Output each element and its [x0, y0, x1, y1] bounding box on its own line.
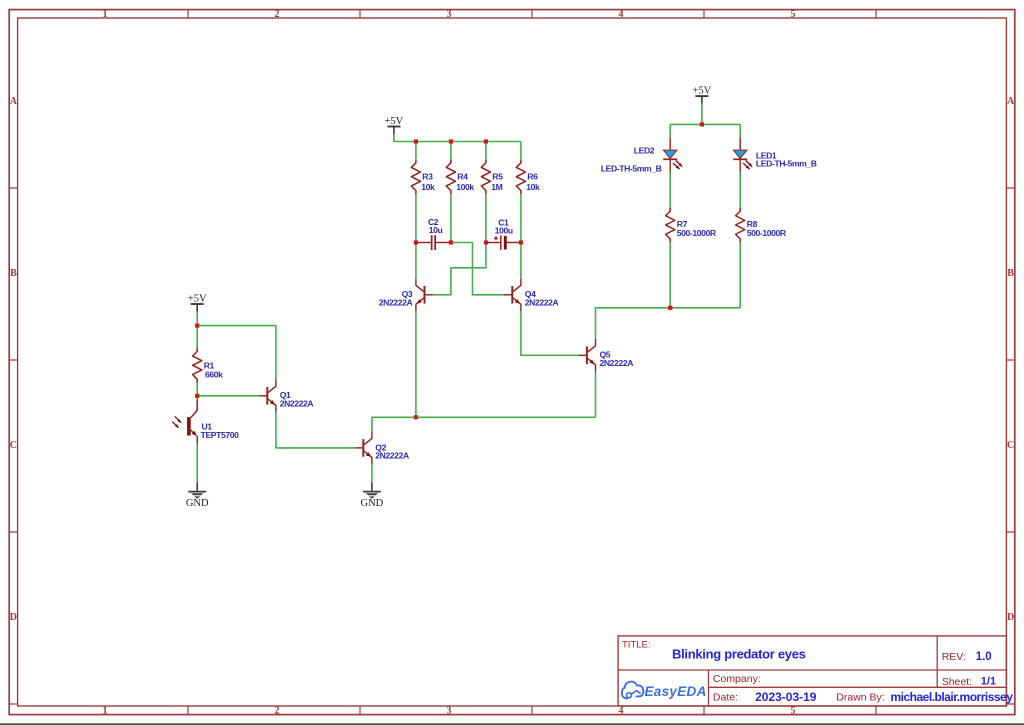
junction C1 left	[484, 240, 488, 244]
junction R7 bottom bus	[668, 306, 672, 310]
value 2N2222A Q4	[525, 298, 559, 308]
+5V supply symbol right	[693, 86, 712, 104]
svg-text:A: A	[1007, 96, 1015, 107]
svg-text:5: 5	[791, 9, 796, 20]
junction C2 left	[414, 240, 418, 244]
wire LED1 anode drop	[739, 124, 741, 137]
svg-text:2: 2	[275, 9, 280, 20]
svg-text:R6: R6	[527, 172, 538, 182]
resistor R3	[411, 159, 420, 194]
svg-text:100k: 100k	[456, 182, 474, 192]
wire R7 bottom to bus	[669, 242, 671, 307]
svg-text:LED-TH-5mm_B: LED-TH-5mm_B	[756, 158, 817, 168]
wire C2 left to Q3 collector	[415, 243, 417, 279]
svg-text:2N2222A: 2N2222A	[600, 358, 634, 368]
svg-text:+5V: +5V	[693, 86, 712, 97]
svg-text:2: 2	[275, 705, 280, 716]
wire R8 bottom to bus	[739, 242, 741, 307]
wire R3 bottom to C2 left	[415, 194, 417, 243]
label Q1	[280, 390, 291, 400]
junction +5V LED bus	[700, 122, 704, 126]
svg-text:3: 3	[447, 705, 452, 716]
sheet value 1/1	[981, 676, 996, 688]
EasyEDA logo	[622, 682, 707, 699]
label U1	[202, 421, 213, 431]
value 660k	[205, 369, 223, 379]
junction R1/U1/Q1 base	[195, 394, 199, 398]
wire Q4 emitter to Q5 base	[521, 311, 579, 355]
svg-text:1M: 1M	[491, 182, 502, 192]
svg-text:R3: R3	[422, 172, 433, 182]
svg-text:A: A	[10, 96, 18, 107]
svg-text:2023-03-19: 2023-03-19	[755, 690, 817, 704]
wire Q2 collector to Q5 emitter rail	[372, 417, 596, 431]
value 500-1000R	[677, 228, 717, 238]
junction Q3 emitter rail	[414, 415, 418, 419]
wire C1 right to Q4 collector	[520, 243, 522, 279]
value 500-1000R	[747, 228, 787, 238]
svg-text:Drawn By:: Drawn By:	[836, 692, 884, 704]
svg-text:B: B	[1007, 268, 1014, 279]
value 10k	[421, 182, 435, 192]
junction R5 top	[484, 139, 488, 143]
transistor Q5	[579, 339, 596, 372]
svg-text:1: 1	[103, 9, 108, 20]
wire R5 bottom to C1 left	[485, 194, 487, 243]
author value	[891, 690, 1014, 704]
title block TITLE label	[622, 639, 651, 650]
Company label	[713, 673, 761, 685]
svg-text:660k: 660k	[205, 369, 223, 379]
svg-text:B: B	[10, 268, 17, 279]
svg-text:10u: 10u	[429, 225, 443, 235]
Date label	[713, 692, 738, 704]
svg-text:+5V: +5V	[385, 116, 404, 127]
wire +5V to R1 top	[196, 311, 198, 348]
wire LED top bus	[670, 123, 740, 125]
svg-text:D: D	[10, 612, 17, 623]
wire R3 top	[415, 142, 417, 160]
transistor Q3 mirrored	[416, 278, 433, 311]
REV label	[942, 651, 966, 663]
wire +5V junction to Q1 collector	[197, 326, 276, 380]
svg-text:Company:: Company:	[713, 673, 761, 685]
value LED-TH-5mm_B left	[601, 163, 662, 173]
wire C2 right to Q4 base	[451, 243, 504, 295]
wire LED2 to R7	[669, 172, 671, 208]
svg-text:100u: 100u	[495, 226, 513, 236]
svg-text:4: 4	[619, 9, 624, 20]
svg-text:4: 4	[619, 705, 624, 716]
value 100u	[495, 226, 513, 236]
svg-text:Date:: Date:	[713, 692, 738, 704]
svg-text:2N2222A: 2N2222A	[379, 298, 413, 308]
resistor R6	[516, 159, 525, 194]
svg-text:500-1000R: 500-1000R	[747, 228, 787, 238]
+5V supply symbol middle	[385, 116, 404, 134]
Drawn By label	[836, 692, 884, 704]
svg-text:Sheet:: Sheet:	[942, 676, 972, 688]
value 10k	[526, 182, 540, 192]
Sheet label	[942, 676, 972, 688]
svg-text:5: 5	[791, 705, 796, 716]
svg-text:2N2222A: 2N2222A	[375, 451, 409, 461]
wire R6 bottom to C1 right	[520, 194, 522, 243]
label C2	[428, 217, 439, 227]
svg-text:REV:: REV:	[942, 651, 966, 663]
resistor R4	[446, 159, 455, 194]
svg-text:1: 1	[103, 705, 108, 716]
label R8	[747, 219, 758, 229]
svg-text:2N2222A: 2N2222A	[525, 298, 559, 308]
wire R4 top	[450, 142, 452, 160]
label Q4	[525, 289, 536, 299]
LED LED2	[663, 138, 682, 173]
bottom green edge strip	[0, 723, 1024, 725]
label R4	[457, 172, 468, 182]
svg-text:TEPT5700: TEPT5700	[201, 430, 240, 440]
svg-text:TITLE:: TITLE:	[622, 639, 651, 650]
label LED1	[756, 151, 777, 161]
revision value 1.0	[976, 651, 992, 663]
transistor Q4	[504, 278, 521, 311]
svg-text:3: 3	[447, 9, 452, 20]
svg-text:C: C	[10, 440, 17, 451]
value 2N2222A Q1	[280, 399, 314, 409]
capacitor C1 polarized	[486, 235, 521, 250]
label R5	[492, 172, 503, 182]
svg-text:GND: GND	[361, 498, 384, 509]
wire R1 bottom to U1 collector	[196, 382, 198, 399]
wire LED1 to R8	[739, 172, 741, 208]
svg-text:+5V: +5V	[188, 293, 207, 304]
value 2N2222A Q2	[375, 451, 409, 461]
resistor R7	[666, 208, 675, 243]
wire R6 top	[520, 142, 522, 160]
wire Q5 collector to LED bottom bus	[596, 308, 741, 339]
capacitor C2	[416, 235, 451, 250]
junction C2 right	[449, 240, 453, 244]
svg-text:R5: R5	[492, 172, 503, 182]
wire Q5 emitter down to rail	[595, 372, 597, 417]
label R3	[422, 172, 433, 182]
wire R1/U1 junction to Q1 base	[197, 395, 259, 397]
junction +5V/R1	[195, 324, 199, 328]
svg-text:michael.blair.morrissey: michael.blair.morrissey	[891, 690, 1014, 704]
phototransistor U1	[172, 400, 197, 444]
label Q3	[402, 289, 413, 299]
label Q2	[375, 442, 386, 452]
value LED-TH-5mm_B right	[756, 158, 817, 168]
svg-text:R4: R4	[457, 172, 468, 182]
svg-text:10k: 10k	[421, 182, 435, 192]
wire R4 bottom to C2 right	[450, 194, 452, 243]
label C1	[498, 218, 509, 228]
wire +5V to resistor bus	[394, 134, 521, 142]
svg-text:1/1: 1/1	[981, 676, 996, 688]
transistor Q2	[355, 431, 372, 464]
svg-text:C: C	[1007, 440, 1014, 451]
LED LED1	[733, 138, 752, 173]
transistor Q1	[259, 379, 276, 412]
+5V supply symbol left	[188, 293, 207, 311]
ground GND left	[186, 483, 209, 509]
value TEPT5700	[201, 430, 240, 440]
label Q5	[600, 350, 611, 360]
junction C1 right	[519, 240, 523, 244]
value 2N2222A Q3	[379, 298, 413, 308]
date value	[755, 690, 817, 704]
svg-text:LED2: LED2	[634, 146, 655, 156]
junction R4 top	[449, 139, 453, 143]
svg-text:GND: GND	[186, 498, 209, 509]
resistor R5	[481, 159, 490, 194]
svg-text:500-1000R: 500-1000R	[677, 228, 717, 238]
wire C1 left to Q3 base	[433, 243, 486, 295]
resistor R8	[736, 208, 745, 243]
svg-text:EasyEDA: EasyEDA	[645, 684, 707, 699]
schematic title text	[672, 647, 806, 662]
label R6	[527, 172, 538, 182]
wire Q3 emitter down to rail	[415, 311, 417, 417]
ground GND right	[361, 483, 384, 509]
wire Q2 emitter to GND	[371, 465, 373, 483]
wire Q1 emitter to Q2 base	[276, 412, 355, 448]
wire R5 top	[485, 142, 487, 160]
value 2N2222A Q5	[600, 358, 634, 368]
svg-text:1.0: 1.0	[976, 651, 992, 663]
resistor R1	[193, 348, 202, 383]
svg-text:2N2222A: 2N2222A	[280, 399, 314, 409]
junction R3 top	[414, 139, 418, 143]
value 100k	[456, 182, 474, 192]
svg-text:10k: 10k	[526, 182, 540, 192]
title block grid	[618, 636, 1006, 706]
wire U1 emitter to GND	[196, 443, 198, 482]
svg-text:LED-TH-5mm_B: LED-TH-5mm_B	[601, 163, 662, 173]
label LED2	[634, 146, 655, 156]
value 10u	[429, 225, 443, 235]
label R1	[204, 361, 215, 371]
value 1M	[491, 182, 502, 192]
label R7	[677, 219, 688, 229]
svg-text:D: D	[1007, 612, 1014, 623]
svg-text:Blinking predator eyes: Blinking predator eyes	[672, 647, 806, 662]
wire LED2 anode drop	[669, 124, 671, 137]
wire +5V to LED bus	[701, 104, 703, 125]
